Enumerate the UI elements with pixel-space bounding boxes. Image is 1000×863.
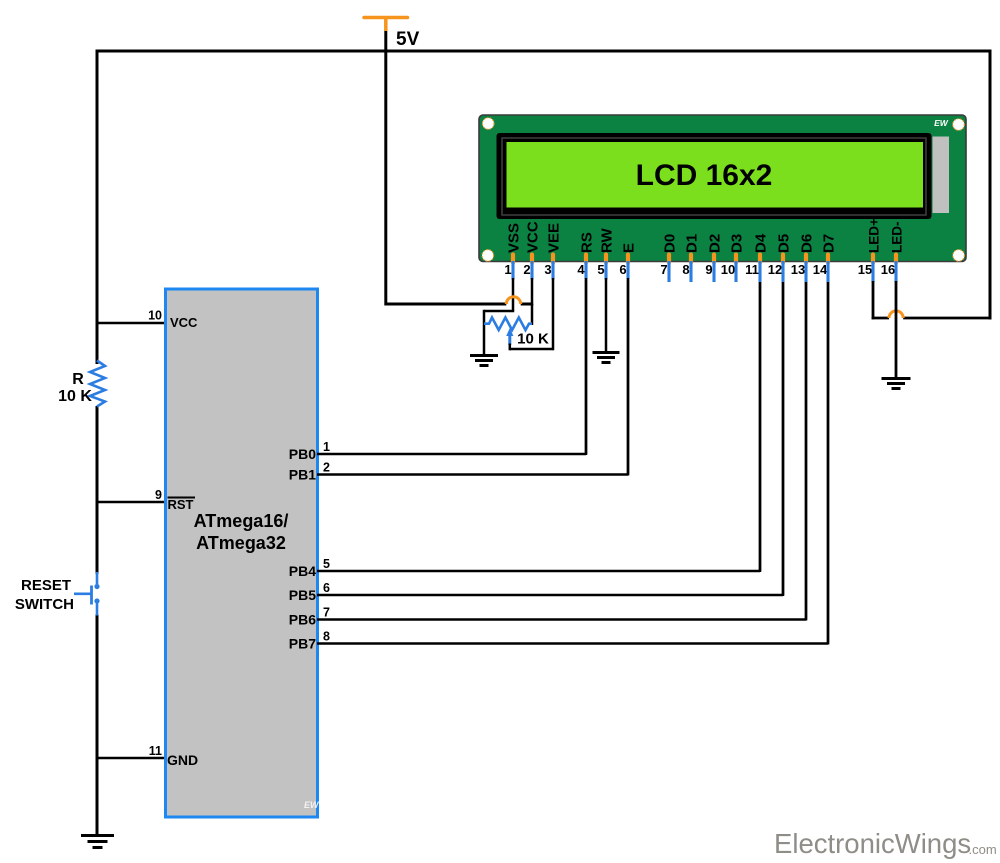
svg-text:14: 14	[813, 262, 828, 277]
svg-text:.com: .com	[969, 842, 997, 857]
svg-text:RESET: RESET	[21, 577, 71, 594]
LCD bezel	[497, 133, 932, 219]
svg-text:16: 16	[881, 262, 895, 277]
LCD pin stub 8	[689, 261, 692, 282]
svg-text:E: E	[621, 243, 638, 253]
wire PB0 to LCD	[317, 280, 586, 454]
wire PB1 to LCD	[317, 280, 628, 475]
svg-text:GND: GND	[167, 752, 198, 768]
LCD pin stub 5	[604, 261, 607, 280]
wire GND branch (pin 11)	[96, 757, 166, 760]
LCD pin stub 9	[712, 261, 715, 282]
LCD pin stub 11	[758, 261, 761, 282]
wire PB5 to LCD	[317, 280, 783, 595]
wire wiper to VEE pin3	[510, 278, 553, 350]
LCD pin pad 9	[712, 255, 716, 263]
svg-text:7: 7	[323, 606, 330, 620]
LCD pin pad 11	[758, 255, 762, 263]
LCD pin stub 16	[894, 261, 897, 282]
wire VCC branch (pin 10)	[96, 322, 166, 325]
LCD pin pad 7	[667, 255, 671, 263]
ground (LED-)	[882, 379, 911, 389]
svg-text:D5: D5	[776, 234, 793, 253]
LCD pin stub 14	[826, 261, 829, 282]
LCD pin pad 2	[530, 255, 534, 263]
svg-text:EW: EW	[304, 800, 320, 810]
svg-text:LED-: LED-	[890, 222, 905, 254]
svg-text:SWITCH: SWITCH	[15, 596, 74, 613]
LCD pin stub 1	[511, 261, 514, 280]
svg-text:10 K: 10 K	[58, 388, 92, 405]
svg-text:1: 1	[323, 440, 330, 454]
svg-text:12: 12	[768, 262, 782, 277]
svg-text:8: 8	[682, 262, 689, 277]
svg-text:RS: RS	[579, 232, 596, 253]
wire D5 pin12 to PB5	[782, 282, 785, 596]
LCD pin stub 2	[530, 261, 533, 280]
svg-text:VSS: VSS	[506, 223, 523, 253]
svg-text:LED+: LED+	[867, 218, 882, 253]
IC U1 ATmega16/ATmega32 body	[166, 289, 318, 817]
svg-text:7: 7	[660, 262, 667, 277]
svg-text:5: 5	[597, 262, 604, 277]
LCD pin pad 4	[584, 255, 588, 263]
svg-text:D0: D0	[662, 234, 679, 253]
ground (RW)	[593, 353, 620, 363]
svg-text:13: 13	[791, 262, 805, 277]
watermark ElectronicWings.com	[774, 828, 997, 859]
svg-text:1: 1	[504, 262, 511, 277]
wire LED+ pin15 to 5V rail (with hop over pin16)	[872, 281, 992, 319]
LCD pin pad 3	[551, 255, 555, 263]
svg-text:PB1: PB1	[289, 467, 316, 483]
wire VSS (pin1) to ground	[484, 278, 514, 356]
LCD 16x2 module PCB	[479, 115, 966, 262]
svg-text:ATmega16/: ATmega16/	[194, 511, 289, 531]
LCD pin pad 15	[871, 255, 875, 263]
svg-text:RW: RW	[599, 227, 616, 253]
LCD mounting hole top left	[482, 118, 494, 130]
LCD pin stub 7	[667, 261, 670, 282]
svg-text:PB0: PB0	[289, 446, 316, 462]
LCD pin pad 1	[511, 255, 515, 263]
wire E pin6 to PB1	[627, 278, 630, 476]
svg-text:10 K: 10 K	[517, 331, 549, 348]
svg-text:LCD 16x2: LCD 16x2	[636, 159, 773, 192]
wire RST branch (pin 9)	[96, 501, 166, 504]
LCD pin stub 6	[626, 261, 629, 280]
svg-text:ATmega32: ATmega32	[196, 533, 286, 553]
LCD pin pad 16	[894, 255, 898, 263]
svg-text:VEE: VEE	[546, 223, 563, 253]
svg-text:11: 11	[149, 744, 162, 758]
svg-text:8: 8	[323, 630, 330, 644]
svg-text:EW: EW	[934, 118, 949, 128]
ground (bottom left)	[81, 836, 114, 848]
wire D4 pin11 to PB4	[759, 282, 762, 572]
svg-text:4: 4	[577, 262, 585, 277]
wire 5V stem down to VCC feed	[384, 31, 387, 306]
svg-text:D3: D3	[729, 234, 746, 253]
wire D7 pin14 to PB7	[827, 282, 830, 645]
wire LED- pin16 to ground	[895, 281, 898, 379]
wire left vertical rail	[96, 50, 99, 837]
LCD pin pad 5	[604, 255, 608, 263]
svg-text:10: 10	[148, 309, 162, 323]
svg-text:5: 5	[323, 557, 330, 571]
ground (VSS / pot)	[470, 356, 498, 366]
svg-text:ElectronicWings: ElectronicWings	[774, 828, 971, 859]
svg-text:R: R	[72, 371, 84, 388]
svg-text:RST: RST	[168, 497, 194, 512]
LCD pin pad 6	[626, 255, 630, 263]
resistor R 10K	[90, 361, 105, 407]
wire right vertical (5V to LED+)	[989, 50, 992, 320]
wire hop (5V feed over VSS wire)	[506, 297, 520, 304]
wire PB7 to LCD	[317, 280, 828, 644]
LCD pin pad 14	[826, 255, 830, 263]
svg-text:PB4: PB4	[289, 563, 316, 579]
svg-text:PB6: PB6	[289, 612, 316, 628]
wire top 5V rail	[96, 50, 992, 53]
pushbutton RESET SWITCH	[74, 572, 100, 616]
wire D6 pin13 to PB6	[805, 282, 808, 621]
wire PB4 to LCD	[317, 280, 760, 571]
svg-text:D1: D1	[684, 234, 701, 253]
wire 5V feed to VCC pin2 (with hop over pin1)	[386, 278, 534, 325]
wire RW pin5 to ground	[605, 278, 608, 353]
svg-text:6: 6	[323, 581, 330, 595]
svg-text:VCC: VCC	[525, 221, 542, 253]
svg-text:VCC: VCC	[170, 315, 198, 330]
svg-text:D7: D7	[821, 234, 838, 253]
LCD pin pad 8	[689, 255, 693, 263]
LCD pin pad 10	[734, 255, 738, 263]
svg-text:6: 6	[619, 262, 626, 277]
wire PB6 to LCD	[317, 280, 806, 620]
svg-text:D6: D6	[799, 234, 816, 253]
5V supply symbol	[364, 18, 408, 32]
LCD mounting hole top right	[953, 119, 965, 131]
svg-text:9: 9	[705, 262, 712, 277]
svg-text:11: 11	[745, 262, 759, 277]
svg-text:15: 15	[858, 262, 872, 277]
LCD pin stub 12	[781, 261, 784, 282]
LCD mounting hole bottom right	[953, 250, 965, 262]
LCD screen	[507, 142, 924, 208]
svg-text:D4: D4	[753, 233, 770, 253]
svg-text:5V: 5V	[396, 29, 420, 50]
LCD pin stub 10	[734, 261, 737, 282]
svg-text:2: 2	[323, 461, 330, 475]
pin label RST (with overline)	[168, 497, 196, 512]
LCD pin stub 15	[871, 261, 874, 282]
LCD pin pad 12	[781, 255, 785, 263]
wire hop (LED+ over LED- wire)	[889, 311, 903, 318]
wire RS pin4 to PB0	[585, 278, 588, 455]
LCD connector strip (right)	[933, 137, 950, 214]
svg-text:10: 10	[721, 262, 735, 277]
svg-text:3: 3	[544, 262, 551, 277]
svg-text:PB7: PB7	[289, 636, 316, 652]
label RESET SWITCH	[15, 577, 74, 613]
svg-text:9: 9	[155, 488, 162, 502]
svg-text:D2: D2	[707, 234, 724, 253]
potentiometer 10K	[484, 318, 532, 331]
LCD pin stub 13	[804, 261, 807, 282]
LCD mounting hole bottom left	[482, 250, 494, 262]
potentiometer wiper arrow	[506, 328, 513, 345]
LCD pin pad 13	[804, 255, 808, 263]
svg-text:PB5: PB5	[289, 587, 316, 603]
svg-text:2: 2	[523, 262, 530, 277]
LCD pin stub 3	[551, 261, 554, 280]
LCD pin stub 4	[584, 261, 587, 280]
